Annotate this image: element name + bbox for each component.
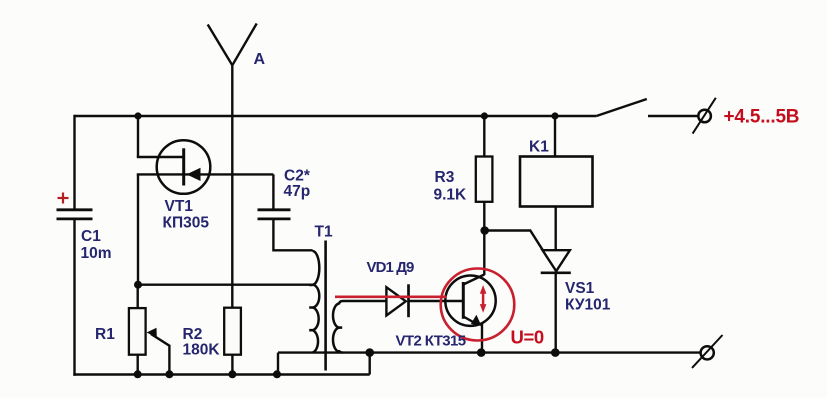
wire divider node to T1 tap [138, 284, 313, 286]
wire VT1 drain vertical to top rail [137, 116, 139, 157]
terminal minus output circle [701, 346, 714, 359]
transistor VT1 channel bar [182, 148, 185, 185]
transistor VT1 circle [157, 140, 211, 194]
wire T1 secondary top hook to VD1 [339, 301, 386, 305]
wire R2 bottom lead [231, 355, 233, 375]
node junction dot R2 bottom [228, 370, 236, 378]
thyristor VS1 triangle [543, 250, 570, 271]
wire R1 top lead [136, 285, 138, 309]
diode VD1 cathode bar [407, 284, 410, 317]
wire K1 top lead [554, 116, 556, 157]
annotation red circle around VT2 [441, 269, 515, 341]
wire VT1 gate vertical down [137, 174, 139, 285]
node junction dot VS1 cathode on bottom line [551, 348, 560, 357]
wire T1 primary bottom lead [278, 351, 313, 353]
node junction dot R3 on top rail [481, 112, 488, 119]
terminal minus output slash [692, 335, 723, 368]
switch SA1 blade [596, 99, 646, 116]
transformer T1 primary winding [313, 251, 320, 353]
svg-text:47p: 47p [284, 183, 311, 200]
svg-text:VS1: VS1 [565, 280, 595, 297]
wire bottom line drop to ground rail [369, 353, 371, 375]
wire switch to plus terminal [648, 115, 698, 117]
node junction dot VT2 emitter on bottom line [477, 348, 486, 357]
capacitor C2 bottom plate [258, 217, 291, 220]
svg-text:A: A [254, 51, 266, 68]
wire T1 secondary bottom hook [339, 350, 343, 353]
transformer T1 secondary winding [333, 304, 339, 352]
wire top supply rail [75, 115, 597, 117]
transistor VT1 source arrow [187, 168, 201, 181]
svg-text:VT2 КТ315: VT2 КТ315 [396, 333, 466, 350]
transistor VT2 collector diagonal [463, 275, 484, 285]
transformer T1 core [324, 241, 327, 371]
wire R1 bottom lead [136, 355, 138, 375]
wire R3 top lead [483, 116, 485, 157]
wire bottom-left ground rail [73, 373, 369, 375]
resistor R1 wiper arrow head [147, 328, 157, 338]
node junction dot R3 bottom / VT2 collector [480, 226, 489, 235]
resistor R3 body [476, 157, 493, 202]
svg-text:180K: 180K [183, 342, 221, 359]
wire bottom common line [313, 351, 701, 353]
wire C2 bottom lead to T1 primary top [273, 219, 312, 250]
annotation red signal line over VD1 [335, 295, 447, 298]
svg-text:9.1K: 9.1K [434, 187, 468, 204]
wire VT1 drain lead [137, 156, 184, 158]
node junction dot K1 on top rail [551, 112, 558, 119]
transistor VT2 emitter diagonal [463, 317, 477, 325]
capacitor C1 top plate [57, 208, 93, 211]
terminal plus supply slash [693, 98, 716, 134]
svg-text:C1: C1 [81, 228, 101, 245]
antenna WA1 mast [231, 65, 233, 307]
svg-text:VT1: VT1 [165, 198, 194, 215]
svg-text:R1: R1 [95, 326, 115, 343]
transistor VT2 base bar [462, 282, 465, 319]
transistor VT2 circle [445, 276, 495, 326]
capacitor C1 bottom plate [57, 217, 93, 220]
antenna right arm [232, 24, 256, 66]
svg-text:10m: 10m [81, 245, 112, 262]
wire VS1 gate from collector node [485, 231, 543, 251]
node junction dot gate divider [134, 281, 142, 289]
resistor R2 body [224, 308, 241, 355]
annotation red double arrow in VT2 [482, 292, 485, 306]
diode VD1 triangle [386, 287, 405, 315]
node junction dot R1 bottom [134, 370, 142, 378]
svg-text:T1: T1 [315, 224, 333, 241]
wire K1 bottom lead to VS1 anode [555, 207, 557, 251]
capacitor C2 top plate [258, 208, 291, 211]
svg-text:U=0: U=0 [511, 326, 544, 347]
wire VT2 collector vertical [483, 231, 485, 276]
svg-text:VD1 Д9: VD1 Д9 [367, 259, 415, 276]
node junction dot bottom line drop [365, 348, 374, 357]
wire VS1 cathode vertical [555, 273, 557, 353]
antenna left arm [208, 25, 233, 66]
resistor R1 body [129, 308, 146, 355]
svg-text:560: 560 [95, 0, 121, 4]
wire T1 primary bottom drop to ground rail [277, 353, 279, 375]
transformer T1 primary winding cusp nubs [309, 285, 312, 330]
wire C1 bottom to bottom-left rail [73, 219, 75, 376]
svg-text:R3: R3 [435, 169, 455, 186]
node junction dot VT1 drain on top rail [134, 112, 141, 119]
svg-text:K1: K1 [529, 139, 549, 156]
relay K1 coil box [520, 157, 593, 207]
svg-text:КП305: КП305 [163, 214, 210, 231]
svg-text:КУ101: КУ101 [565, 296, 611, 313]
capacitor C1 polarity plus sign [58, 193, 69, 204]
transistor VT2 emitter arrow [471, 315, 482, 326]
node junction dot primary return on ground rail [273, 370, 281, 378]
node junction dot R1 wiper bottom [165, 370, 173, 378]
wire VD1 cathode to VT2 base [409, 300, 464, 302]
svg-text:+4.5...5В: +4.5...5В [724, 107, 800, 128]
wire R1 wiper lead [151, 334, 169, 375]
thyristor VS1 cathode bar [541, 271, 571, 274]
wire R3 bottom lead [483, 202, 485, 231]
terminal plus supply circle [698, 110, 711, 123]
svg-text:C2*: C2* [284, 168, 311, 185]
wire left vertical (top rail to C1) [73, 115, 75, 209]
wire VT1 gate-source horizontal lead [137, 173, 274, 175]
wire VT2 emitter vertical [481, 324, 483, 353]
transformer T1 secondary winding cusp nub [339, 326, 342, 329]
capacitor C2 top lead [272, 174, 274, 209]
